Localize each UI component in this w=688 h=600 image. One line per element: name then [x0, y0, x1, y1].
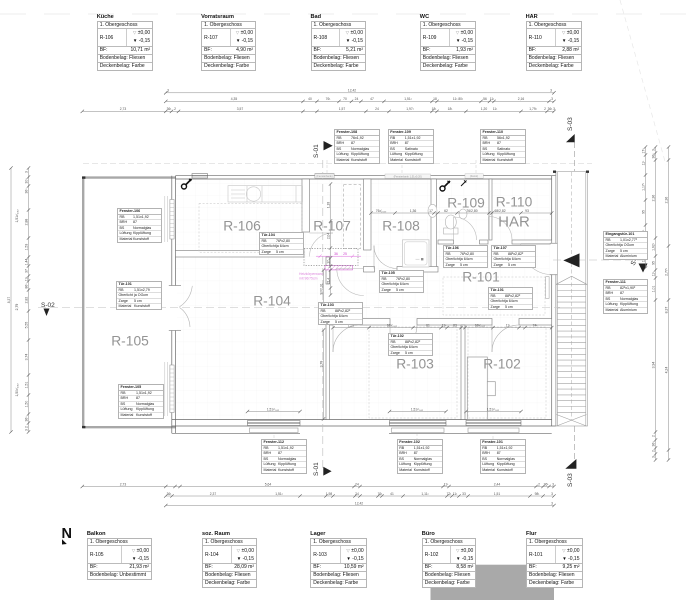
info box Tür-103 [318, 302, 363, 325]
svg-text:33: 33 [462, 492, 466, 496]
svg-text:76¹: 76¹ [326, 97, 332, 101]
section marker S-02 left [41, 302, 55, 316]
svg-text:2: 2 [24, 426, 28, 428]
svg-text:4,24: 4,24 [664, 367, 668, 374]
svg-text:1,50¹⁄₁,₉₂: 1,50¹⁄₁,₉₂ [15, 383, 19, 397]
svg-text:1,01: 1,01 [651, 286, 655, 293]
radiator right wall [546, 277, 550, 299]
balcony railing R-105 [83, 178, 176, 428]
svg-text:1,53: 1,53 [24, 244, 28, 251]
svg-text:11¹: 11¹ [641, 160, 645, 166]
info box Fenster-106 [117, 208, 162, 243]
svg-text:1,51¹⁄₁,₉₂: 1,51¹⁄₁,₉₂ [487, 407, 500, 411]
shaft R-107 [344, 185, 361, 249]
window Fenster-106a top [192, 174, 208, 178]
inner sill dims bottom [246, 407, 302, 413]
svg-text:1,51¹⁄₁,₉₂: 1,51¹⁄₁,₉₂ [267, 407, 280, 411]
svg-text:3,78: 3,78 [319, 361, 323, 368]
svg-text:24: 24 [355, 482, 359, 486]
window Fenster-112 bottom [248, 421, 301, 433]
interior wall R-104 right [326, 257, 330, 284]
svg-text:5,64: 5,64 [265, 482, 272, 486]
svg-text:2,04: 2,04 [326, 233, 330, 239]
svg-text:3,74: 3,74 [24, 354, 28, 361]
interior wall R-106/R-107 [302, 179, 310, 232]
info box Fenster-101 [480, 439, 526, 474]
top dimension row 3 [81, 107, 556, 113]
bottom dimension row 2 [164, 492, 556, 498]
interior dim R-104 vertical [319, 328, 325, 420]
section marker S-03 bottom [565, 459, 576, 487]
room table Balkon [87, 531, 106, 537]
svg-text:24: 24 [355, 97, 359, 101]
svg-text:24: 24 [375, 107, 379, 111]
svg-text:36¹: 36¹ [544, 482, 550, 486]
interior wall R-108/R-109 [431, 179, 436, 270]
svg-text:17: 17 [326, 260, 330, 264]
room label R-107 [313, 219, 351, 234]
info box Eingangstür-101 [603, 231, 648, 260]
room label HAR [498, 214, 530, 231]
door Tuer-101 Buero [492, 325, 519, 352]
svg-text:3: 3 [552, 482, 554, 486]
svg-text:(Fensterbank): (Fensterbank) [316, 174, 332, 178]
svg-text:1,51¹⁄₁,₉₂: 1,51¹⁄₁,₉₂ [15, 209, 19, 223]
exterior walls [172, 172, 556, 434]
svg-text:1,57: 1,57 [339, 107, 346, 111]
info box Fenster-110 [480, 129, 526, 164]
svg-text:(Fenst): (Fenst) [470, 174, 478, 178]
info box Fenster-105 [118, 384, 164, 419]
left dimension labels mid [15, 209, 19, 397]
roof overhang dashed line [83, 163, 592, 165]
right dimension chain inner [641, 145, 647, 269]
svg-text:3,94: 3,94 [651, 362, 655, 369]
svg-text:2: 2 [651, 450, 655, 452]
section line S-02 [38, 306, 560, 308]
svg-text:1,18: 1,18 [326, 202, 330, 208]
key symbol WC door [440, 181, 450, 191]
svg-text:1,62¹: 1,62¹ [651, 242, 655, 251]
svg-text:2,37: 2,37 [210, 492, 217, 496]
svg-text:3: 3 [24, 429, 28, 431]
washbasin R-109 [459, 209, 467, 219]
room label R-109 [447, 196, 485, 211]
svg-text:86¹: 86¹ [24, 283, 28, 289]
svg-text:1,51¹: 1,51¹ [275, 492, 283, 496]
svg-text:90/2,31: 90/2,31 [319, 283, 323, 294]
svg-text:2,44: 2,44 [494, 482, 501, 486]
window Fenster-110 top [465, 174, 483, 178]
info box Tür-102 [388, 333, 433, 356]
svg-text:(Fensterbank 1,51x0,20): (Fensterbank 1,51x0,20) [394, 174, 422, 178]
svg-text:N: N [62, 526, 72, 542]
door Tuer-104 [310, 233, 334, 257]
interior dim R-104 upper vertical [319, 268, 325, 312]
ceiling outline R-103 [369, 327, 457, 418]
room label R-106 [223, 219, 261, 234]
right dimension chain mid [651, 145, 657, 461]
heating wall magenta [316, 252, 361, 270]
svg-text:2,82: 2,82 [24, 297, 28, 304]
section marker S-01 top [313, 141, 333, 158]
info box Fenster-108 [334, 129, 380, 164]
svg-text:1,11¹: 1,11¹ [421, 492, 429, 496]
room table soz. Raum [202, 531, 230, 537]
room label R-101 [462, 270, 500, 285]
room table Vorratsraum [201, 14, 234, 20]
interior dim R-107 vertical [326, 182, 332, 296]
room label R-102 [483, 357, 521, 372]
staircase [556, 172, 588, 426]
window Fenster-105 left wall [165, 362, 174, 416]
svg-text:1,36: 1,36 [410, 209, 417, 213]
door arc R-104 [337, 269, 364, 296]
svg-text:3: 3 [167, 89, 169, 93]
toilet R-109 [444, 215, 459, 234]
interior wall R-107/R-108 [364, 179, 372, 250]
svg-text:1,98: 1,98 [326, 492, 333, 496]
ceiling outline R-101 [443, 277, 545, 315]
top dimension row 2 [164, 97, 556, 103]
section line S-03 [574, 142, 576, 171]
info box Tür-104 [259, 232, 304, 255]
room table Büro [422, 531, 435, 537]
washbasin R-108 [428, 204, 437, 217]
svg-text:36¹: 36¹ [24, 416, 28, 422]
svg-text:25: 25 [343, 252, 347, 256]
svg-text:8,37: 8,37 [7, 297, 11, 304]
svg-text:2,88: 2,88 [24, 219, 28, 226]
svg-text:2,73: 2,73 [120, 482, 127, 486]
svg-text:2: 2 [174, 107, 176, 111]
room label R-104 [253, 294, 291, 309]
svg-text:47: 47 [370, 97, 374, 101]
svg-text:3: 3 [551, 97, 553, 101]
room table Lager [310, 531, 325, 537]
svg-text:5,55: 5,55 [24, 322, 28, 329]
svg-text:8,37: 8,37 [664, 307, 668, 314]
door Tuer-105 [374, 246, 397, 269]
svg-text:S-02: S-02 [41, 302, 55, 309]
svg-text:24: 24 [355, 492, 359, 496]
window Fenster-102 bottom [390, 421, 447, 433]
svg-text:76²⁄₂,₈₀: 76²⁄₂,₈₀ [376, 209, 387, 213]
dotted opening below R-107 [304, 249, 358, 266]
room table Flur [526, 531, 537, 537]
svg-text:1,17¹: 1,17¹ [641, 182, 645, 191]
interior wall R-103/R-102 [461, 325, 465, 420]
left dimension chain inner [24, 166, 30, 433]
room table WC [420, 14, 429, 20]
svg-text:36¹: 36¹ [167, 107, 173, 111]
svg-text:70: 70 [343, 97, 347, 101]
window Fenster-101 bottom [466, 421, 521, 433]
entrance door arc [521, 244, 552, 275]
svg-text:17: 17 [429, 209, 433, 213]
interior wall R-103/R-102 top [326, 319, 552, 326]
svg-text:1,20: 1,20 [481, 107, 488, 111]
svg-text:2,77¹: 2,77¹ [664, 267, 668, 276]
door Tuer-103 [333, 325, 360, 352]
svg-text:72¹: 72¹ [447, 492, 453, 496]
svg-text:37: 37 [24, 269, 28, 273]
info box Fenster-112 [261, 439, 307, 474]
door Tuer-102 [390, 325, 417, 352]
interior wall R-109/R-110 [489, 179, 492, 240]
svg-text:30¹: 30¹ [24, 178, 28, 184]
sill label top [315, 174, 334, 178]
svg-text:68²⁄₂,₈₂: 68²⁄₂,₈₂ [475, 323, 486, 327]
svg-text:61: 61 [426, 323, 430, 327]
kitchen counter R-106 [228, 186, 303, 202]
right dimension chain outer [664, 145, 670, 461]
svg-text:1,51: 1,51 [494, 492, 501, 496]
room table Bad [311, 14, 322, 20]
door Tuer-107 HAR [489, 217, 513, 241]
svg-text:36¹: 36¹ [167, 492, 173, 496]
svg-text:3: 3 [551, 492, 553, 496]
svg-text:2: 2 [544, 107, 546, 111]
bottom dimension row 1 [81, 482, 556, 488]
interior wall bath bottom [364, 267, 439, 273]
svg-text:36¹: 36¹ [651, 441, 655, 447]
svg-text:4,35: 4,35 [231, 97, 238, 101]
svg-text:18¹: 18¹ [432, 107, 438, 111]
svg-text:S-03: S-03 [567, 473, 574, 487]
svg-text:11¹: 11¹ [444, 482, 449, 486]
info box Fenster-102 [397, 439, 443, 474]
svg-text:1,97¹: 1,97¹ [406, 107, 414, 111]
room label R-103 [396, 357, 434, 372]
svg-text:18: 18 [433, 97, 437, 101]
svg-text:2: 2 [538, 482, 540, 486]
svg-text:11¹: 11¹ [651, 271, 655, 277]
svg-text:2: 2 [651, 435, 655, 437]
interior dim R-103 top [331, 323, 553, 329]
key symbol kitchen door [182, 179, 192, 189]
svg-text:56: 56 [483, 97, 487, 101]
svg-text:83: 83 [453, 323, 457, 327]
svg-text:3,57: 3,57 [237, 107, 244, 111]
info box Tür-106 [443, 245, 488, 268]
shower R-108 [403, 240, 430, 267]
svg-text:Heizkörperwand: Heizkörperwand [299, 272, 324, 276]
interior wall WC/HAR bottom [438, 240, 552, 244]
section line S-01 [322, 160, 324, 468]
north arrow [62, 526, 72, 545]
shaded area lower floor [431, 565, 555, 600]
info box Tür-101 [116, 281, 162, 310]
svg-text:1,51¹: 1,51¹ [404, 97, 412, 101]
key symbol small [461, 180, 467, 186]
svg-text:1,51¹⁄₁,₉₂: 1,51¹⁄₁,₉₂ [411, 407, 424, 411]
svg-text:3: 3 [550, 89, 552, 93]
info box Fenster-109 [388, 129, 434, 164]
window above R-107 [315, 174, 334, 178]
svg-text:2,36: 2,36 [664, 197, 668, 204]
svg-text:S-03: S-03 [567, 117, 574, 131]
ceiling outline R-106 [199, 203, 302, 252]
svg-text:3: 3 [651, 149, 655, 151]
svg-text:2,79: 2,79 [15, 304, 19, 311]
section marker S-01 bottom [313, 462, 332, 476]
section marker S-02 right [563, 251, 647, 272]
svg-text:12,42: 12,42 [348, 89, 356, 93]
svg-text:12,42: 12,42 [355, 501, 363, 505]
svg-text:1,79¹: 1,79¹ [529, 107, 537, 111]
bottom dimension row 3 [164, 501, 556, 507]
svg-text:11¹: 11¹ [490, 97, 495, 101]
svg-text:1,44: 1,44 [24, 259, 28, 266]
window Fenster-109 top [385, 174, 431, 178]
svg-text:S-01: S-01 [313, 144, 320, 158]
svg-text:40: 40 [308, 97, 312, 101]
left dimension chain outer [7, 166, 13, 433]
svg-text:1,50: 1,50 [24, 401, 28, 408]
room table HAR [526, 14, 538, 20]
interior dim bath row [369, 209, 553, 215]
entrance door opening right wall [551, 244, 557, 275]
room label R-110 [496, 195, 533, 210]
svg-text:2,73: 2,73 [120, 107, 127, 111]
svg-text:3: 3 [651, 456, 655, 458]
svg-text:11¹ 80¹: 11¹ 80¹ [453, 97, 464, 101]
interior wall R-104 top [176, 251, 305, 258]
svg-text:36¹: 36¹ [24, 188, 28, 194]
room label R-108 [382, 219, 420, 234]
svg-text:1,51: 1,51 [24, 382, 28, 389]
room table Küche [97, 14, 114, 20]
section marker S-03 top [566, 117, 575, 142]
door Tuer-106 WC [454, 217, 477, 240]
svg-text:21,4: 21,4 [326, 278, 330, 284]
svg-text:17¹: 17¹ [641, 148, 645, 154]
svg-text:68²⁄₂,₈₂: 68²⁄₂,₈₂ [387, 323, 398, 327]
info box Tür-101 [488, 287, 533, 310]
window Fenster-106 left wall [165, 196, 174, 242]
chimney block R-102 [467, 357, 495, 420]
svg-text:18¹: 18¹ [448, 107, 454, 111]
svg-text:36¹: 36¹ [651, 153, 655, 159]
door Tuer-101 balcony french door [170, 286, 177, 330]
svg-text:S-01: S-01 [313, 462, 320, 476]
info box Tür-107 [491, 245, 536, 268]
svg-text:11¹: 11¹ [493, 107, 498, 111]
svg-text:2,36: 2,36 [651, 195, 655, 202]
svg-text:98¹: 98¹ [535, 492, 541, 496]
ceiling outline R-102 [468, 327, 546, 418]
info box Fenster-111 [603, 279, 648, 314]
svg-text:95: 95 [641, 210, 645, 214]
info box Tür-105 [379, 270, 424, 293]
svg-text:3: 3 [551, 501, 553, 505]
room label R-105 [111, 334, 149, 349]
top dimension row 1 [164, 89, 556, 95]
svg-text:3: 3 [24, 171, 28, 173]
leader lines [274, 160, 493, 459]
svg-text:41: 41 [390, 492, 394, 496]
svg-text:3: 3 [553, 107, 555, 111]
svg-text:36: 36 [334, 252, 338, 256]
svg-text:11¹: 11¹ [453, 492, 458, 496]
floor tile grid [176, 179, 550, 420]
svg-text:2,16: 2,16 [518, 97, 525, 101]
svg-text:95: 95 [651, 261, 655, 265]
svg-text:mit 96/75cm: mit 96/75cm [299, 277, 318, 281]
